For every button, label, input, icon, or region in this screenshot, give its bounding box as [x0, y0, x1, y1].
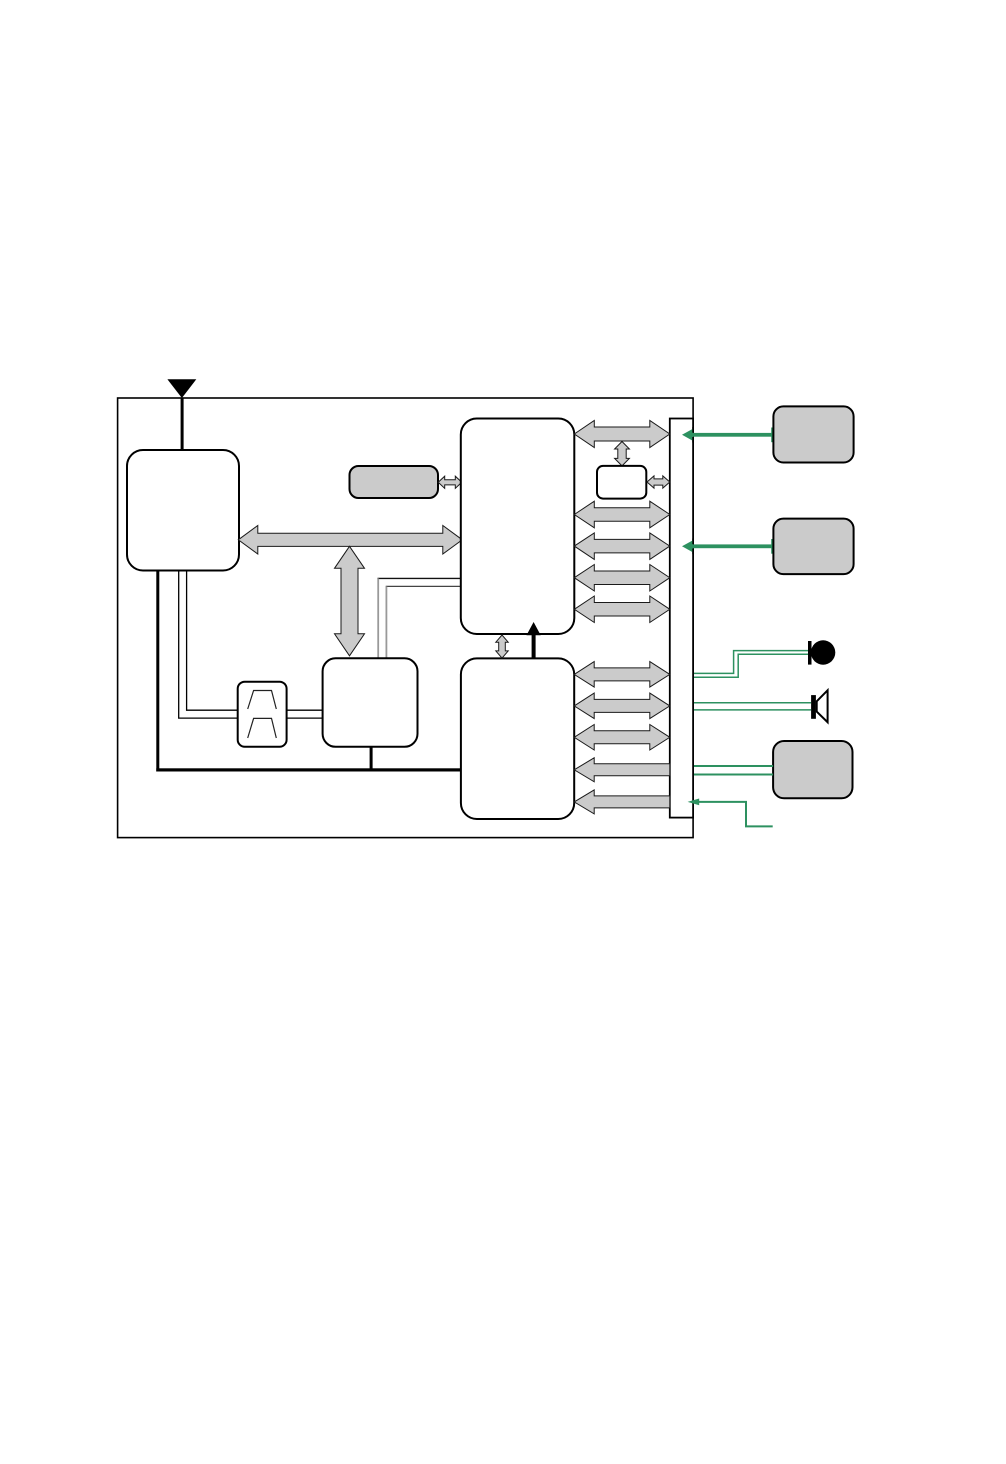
block interface IC (small) [597, 466, 646, 499]
wire microphone - [694, 654, 808, 677]
arrow CPU-connector bus 3 [574, 533, 670, 560]
arrow power-connector 1 [574, 662, 670, 688]
arrow CPU-connector bus 2 [574, 501, 670, 528]
arrow power-connector 2 [574, 693, 670, 719]
arrow connector to power 4 (left only) [574, 758, 670, 782]
wire antenna feed [181, 398, 184, 450]
wire CPU to audio block outer [378, 577, 462, 579]
arrow CPU-connector bus 1 [574, 421, 670, 448]
crystal X1 [238, 682, 287, 747]
wire CPU to audio block inner [386, 585, 462, 587]
speaker SP1 [811, 690, 828, 722]
antenna ANT1 [167, 379, 196, 398]
arrow memory-CPU [438, 476, 462, 488]
arrow CPU-connector bus 4 [574, 565, 670, 592]
block memory (gray) [350, 466, 439, 498]
arrow external device 2 (green) [682, 539, 774, 554]
arrow RF-CPU bus [238, 526, 462, 555]
wire power bus vertical from RF block [156, 570, 159, 772]
wire speaker - [694, 709, 811, 711]
arrow connector to power 5 (left only) [574, 790, 670, 814]
block external device 2 [773, 519, 853, 575]
wire crystal to audio block lower [287, 717, 323, 719]
block audio codec [323, 658, 418, 747]
wire power bus horizontal [156, 768, 462, 771]
arrow interface box-connector [647, 476, 670, 488]
block CPU/baseband U1 [461, 419, 575, 635]
block external device 1 [773, 406, 853, 462]
wire speaker + [694, 702, 811, 704]
block RF transceiver [127, 450, 239, 571]
wire power tap from audio block [370, 746, 373, 770]
microphone MIC1 [808, 640, 835, 664]
block external device 3 (battery) [773, 741, 852, 798]
arrow power to CPU (black) [527, 622, 541, 659]
arrow CPU-power block [496, 635, 508, 658]
arrow RF bus to audio block [335, 546, 365, 656]
wire charger input (green arrow) [688, 799, 773, 827]
wire battery - [694, 774, 773, 776]
arrow external device 1 (green) [682, 428, 774, 443]
arrow bus to interface box [615, 442, 630, 466]
arrow CPU-connector bus 5 [574, 596, 670, 623]
wire crystal to audio block upper [287, 709, 323, 711]
wire RF to crystal outer [179, 571, 238, 719]
arrow power-connector 3 [574, 725, 670, 751]
wire microphone + [694, 651, 808, 674]
connector J1 (board edge) [670, 419, 693, 818]
board outline [118, 398, 694, 838]
block power/interface IC [461, 658, 574, 819]
wire battery + [694, 765, 773, 767]
wire RF to crystal inner [187, 571, 238, 711]
